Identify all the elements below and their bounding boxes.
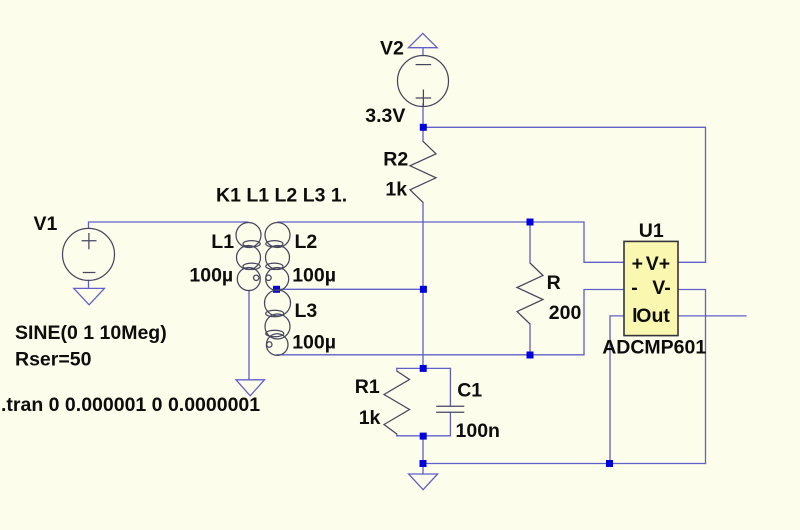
svg-text:100µ: 100µ (292, 265, 336, 287)
svg-text:U1: U1 (639, 220, 664, 242)
svg-text:V2: V2 (380, 38, 404, 60)
svg-text:3.3V: 3.3V (365, 105, 405, 127)
svg-text:R: R (547, 272, 561, 294)
svg-text:C1: C1 (457, 379, 482, 401)
svg-text:100µ: 100µ (292, 332, 336, 354)
svg-text:.tran 0 0.000001 0 0.0000001: .tran 0 0.000001 0 0.0000001 (1, 394, 260, 416)
svg-text:SINE(0 1 10Meg): SINE(0 1 10Meg) (15, 322, 167, 344)
svg-text:L3: L3 (295, 300, 318, 322)
svg-text:V-: V- (652, 277, 670, 299)
svg-text:Rser=50: Rser=50 (15, 349, 92, 371)
svg-text:-: - (631, 277, 638, 299)
svg-text:1k: 1k (359, 407, 381, 429)
svg-text:V+: V+ (646, 253, 670, 275)
svg-text:ADCMP601: ADCMP601 (602, 336, 706, 358)
svg-text:V1: V1 (34, 213, 58, 235)
svg-text:L2: L2 (295, 231, 318, 253)
svg-text:100n: 100n (456, 420, 500, 442)
svg-text:R2: R2 (383, 149, 408, 171)
svg-text:+: + (632, 253, 643, 275)
svg-text:100µ: 100µ (189, 265, 233, 287)
svg-text:K1 L1 L2 L3 1.: K1 L1 L2 L3 1. (216, 185, 347, 207)
svg-text:Out: Out (636, 305, 670, 327)
svg-text:R1: R1 (355, 376, 380, 398)
svg-text:1k: 1k (385, 178, 407, 200)
svg-text:L1: L1 (211, 231, 234, 253)
svg-text:200: 200 (549, 302, 582, 324)
